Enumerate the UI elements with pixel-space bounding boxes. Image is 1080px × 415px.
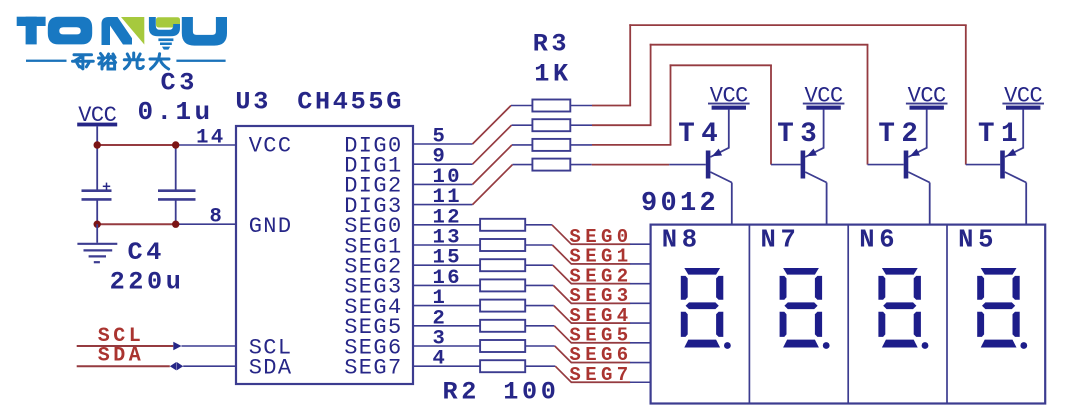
svg-text:R3: R3 — [533, 29, 567, 58]
svg-text:VCC: VCC — [805, 83, 844, 108]
svg-text:14: 14 — [196, 127, 223, 150]
svg-text:SDA: SDA — [249, 355, 292, 380]
svg-text:T2: T2 — [878, 119, 918, 150]
svg-text:U3CH455G: U3CH455G — [235, 88, 401, 117]
svg-text:8: 8 — [210, 206, 222, 229]
svg-text:VCC: VCC — [1004, 83, 1043, 108]
svg-text:VCC: VCC — [710, 83, 749, 108]
svg-text:100: 100 — [503, 377, 556, 406]
svg-text:T3: T3 — [777, 119, 817, 150]
svg-text:N6: N6 — [859, 225, 894, 254]
svg-text:VCC: VCC — [908, 83, 947, 108]
svg-text:T1: T1 — [978, 119, 1018, 150]
svg-text:1K: 1K — [534, 60, 569, 89]
svg-text:VCC: VCC — [249, 133, 291, 158]
svg-text:N7: N7 — [761, 225, 796, 254]
svg-text:9012: 9012 — [641, 189, 716, 219]
svg-text:0.1u: 0.1u — [138, 97, 211, 127]
svg-text:SDA: SDA — [98, 345, 141, 368]
svg-text:C4: C4 — [128, 238, 162, 267]
svg-text:4: 4 — [433, 348, 445, 371]
svg-text:220u: 220u — [110, 267, 181, 296]
svg-text:T4: T4 — [678, 119, 718, 150]
svg-text:R2: R2 — [443, 377, 477, 406]
svg-text:N5: N5 — [958, 225, 993, 254]
svg-text:C3: C3 — [161, 69, 195, 98]
svg-text:SEG7: SEG7 — [344, 355, 401, 380]
svg-text:GND: GND — [249, 214, 291, 239]
svg-text:N8: N8 — [662, 225, 697, 254]
